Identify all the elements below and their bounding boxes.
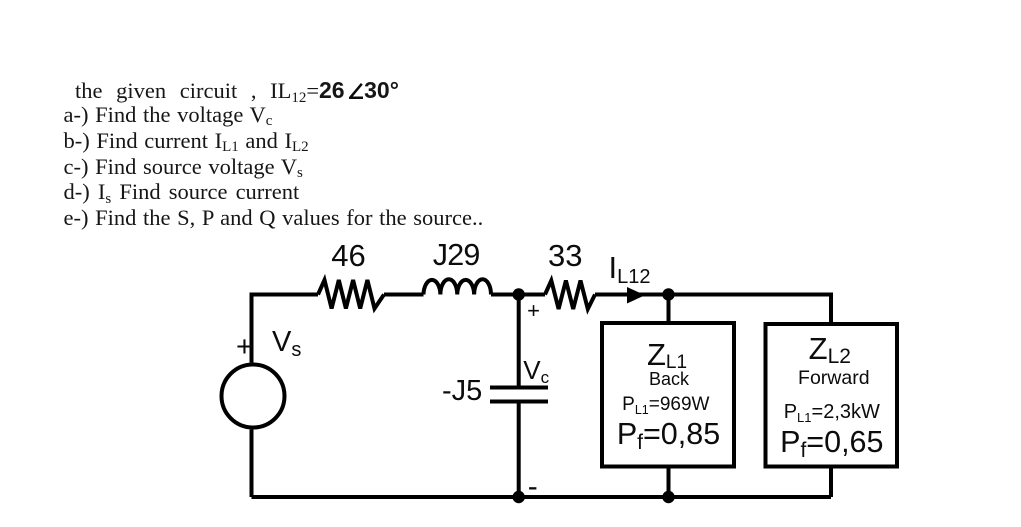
- wire: ZL1 bottom to bottom rail: [667, 469, 671, 498]
- load box ZL1: [602, 323, 734, 467]
- label Pf=0,85: [469, 419, 869, 450]
- node A (top of capacitor): [513, 288, 525, 300]
- wire: node B down to ZL1 top: [667, 295, 671, 324]
- label Forward: [634, 369, 1021, 389]
- label Back: [469, 370, 869, 388]
- bottom rail wire: [252, 495, 832, 499]
- voltage source Vs circle: [222, 365, 285, 428]
- resistor R2 (33): [545, 281, 595, 310]
- inductor L1 (J29): [424, 279, 492, 294]
- node B (top of ZL1): [662, 288, 674, 300]
- question text line 1: [75, 80, 399, 103]
- question line d: [64, 181, 300, 204]
- node C (capacitor bottom junction): [513, 491, 525, 503]
- current label IL12: [609, 252, 651, 283]
- polarity + at source: [236, 333, 253, 362]
- source label Vs: [272, 328, 301, 357]
- label Vc: [523, 357, 549, 383]
- wire: L1 through node A to R2: [491, 293, 545, 297]
- wire: left vertical from top rail to source top: [252, 295, 319, 363]
- value label J29: [256, 240, 656, 271]
- label ZL2: [630, 333, 1021, 364]
- wire: capacitor to bottom rail: [517, 404, 521, 498]
- wire: source bottom to bottom rail: [250, 430, 254, 498]
- label PL1=2,3kW: [632, 402, 1021, 422]
- value label 33: [365, 240, 765, 271]
- current arrow IL12: [627, 287, 645, 304]
- question line a: [64, 104, 273, 127]
- label ZL1: [467, 339, 867, 370]
- wire: node B to top-right corner down to ZL2: [668, 295, 831, 325]
- wire: R1 to L1: [384, 293, 424, 297]
- node D (ZL1 bottom junction): [662, 491, 674, 503]
- label PL1=969W: [466, 395, 866, 414]
- value label 46: [149, 240, 549, 271]
- capacitor C1 bottom plate: [490, 400, 548, 404]
- wire: R2 to node B: [595, 293, 668, 297]
- polarity - at capacitor: [528, 472, 538, 502]
- polarity + at capacitor: [527, 300, 540, 322]
- resistor R1 (46): [318, 280, 384, 309]
- load box ZL2: [766, 324, 898, 467]
- wire: node A down to capacitor: [517, 295, 521, 386]
- wire: ZL2 bottom to bottom rail corner: [829, 469, 833, 498]
- label Pf=0,65: [632, 427, 1021, 458]
- question line c: [64, 156, 303, 179]
- value label -J5: [442, 377, 482, 406]
- question line e: [64, 207, 484, 230]
- capacitor C1 (-J5) top plate: [490, 386, 548, 390]
- question line b: [64, 130, 309, 153]
